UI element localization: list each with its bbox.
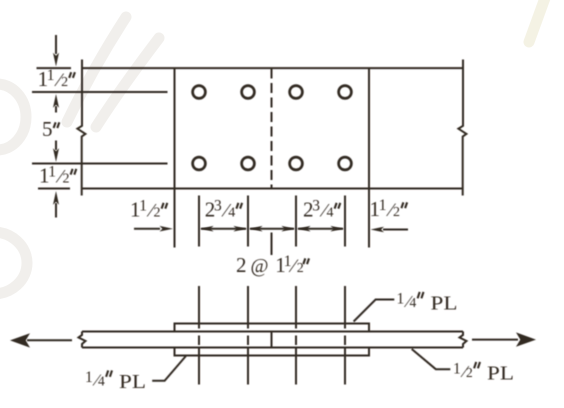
svg-text:5: 5 [42,117,53,141]
